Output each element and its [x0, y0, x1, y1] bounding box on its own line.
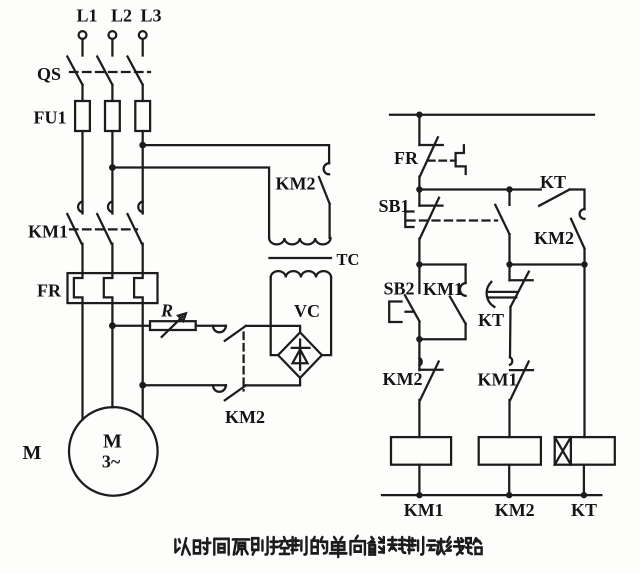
svg-text:M: M — [23, 442, 42, 464]
wire — [508, 234, 510, 264]
contact KM1 interlock blade — [510, 362, 528, 400]
contactor KM1 pole 2 fixed contact — [108, 202, 112, 213]
wire — [418, 265, 420, 294]
wire — [418, 177, 420, 190]
wire — [509, 307, 512, 357]
svg-text:KM2: KM2 — [495, 500, 535, 520]
resistor R arrow — [162, 313, 186, 337]
wire — [81, 85, 83, 101]
svg-text:KM1: KM1 — [478, 370, 518, 390]
node F selfhold — [416, 336, 422, 342]
overload FR heater pole 3 — [134, 273, 143, 303]
switch QS linkage — [70, 71, 150, 73]
transformer TC secondary winding — [271, 271, 331, 277]
wire — [508, 265, 510, 281]
svg-text:KM2: KM2 — [276, 174, 316, 194]
svg-text:FR: FR — [37, 281, 62, 301]
wire — [142, 131, 144, 214]
contactor KM1 linkage — [70, 228, 137, 230]
svg-text:SB1: SB1 — [378, 196, 409, 216]
contactor KM1 pole 1 blade — [67, 214, 81, 244]
wire — [196, 325, 226, 327]
coil KM2 — [479, 437, 541, 465]
svg-text:FU1: FU1 — [34, 108, 67, 128]
SB1 linkage — [408, 219, 498, 221]
switch QS pole 3 blade — [128, 57, 143, 85]
contact KT make blade — [539, 190, 569, 206]
contact KM2 braking lower blade — [225, 385, 246, 400]
wire — [111, 39, 113, 56]
node on L2 to TC — [109, 164, 116, 171]
svg-text:KM1: KM1 — [423, 279, 463, 299]
node KT coil — [581, 492, 587, 498]
node D — [506, 261, 512, 267]
wire — [510, 263, 585, 265]
wire — [81, 244, 83, 274]
overload FR flag — [456, 145, 466, 174]
wire — [418, 400, 420, 437]
switch QS pole 2 blade — [97, 57, 112, 85]
transformer TC core — [270, 257, 332, 259]
node A — [416, 186, 422, 192]
contactor KM1 pole 3 fixed contact — [138, 202, 142, 213]
switch QS pole 1 blade — [67, 57, 82, 85]
coil KM1 — [391, 437, 451, 465]
resistor R — [150, 321, 196, 330]
svg-text:FR: FR — [394, 148, 419, 168]
overload FR heater pole 2 — [104, 273, 113, 303]
wire — [143, 145, 329, 163]
wire L2 lead — [111, 303, 113, 407]
wire L1 lead — [81, 303, 83, 419]
wire — [112, 325, 150, 327]
wire — [271, 278, 278, 356]
wire — [508, 465, 510, 495]
svg-text:KT: KT — [571, 500, 597, 520]
contact FR tick — [419, 144, 442, 146]
svg-text:R: R — [160, 301, 173, 321]
node E — [581, 261, 587, 267]
control top rail — [390, 114, 594, 116]
contact KM2 top fixed — [324, 163, 330, 174]
svg-text:L2: L2 — [111, 6, 132, 26]
svg-text:L1: L1 — [76, 6, 97, 26]
wire — [143, 384, 226, 386]
fuse FU1 pole 3 — [135, 101, 150, 131]
contact KM1 interlock fixed — [510, 357, 512, 365]
fuse FU1 pole 1 — [75, 101, 90, 131]
svg-text:3~: 3~ — [102, 452, 121, 472]
contactor KM1 pole 2 blade — [97, 214, 111, 244]
node KM1 coil — [416, 492, 422, 498]
wire — [464, 265, 466, 284]
rectifier VC bridge — [278, 332, 322, 378]
wire — [583, 265, 585, 438]
wire — [142, 85, 144, 101]
rectifier VC diode — [292, 340, 310, 370]
contact KM2 top blade — [319, 177, 330, 204]
svg-text:KM1: KM1 — [28, 222, 68, 242]
node KM2 coil — [506, 492, 512, 498]
wire — [81, 131, 83, 214]
contact KM1 selfhold fixed — [460, 283, 466, 296]
contact KT delay blade — [511, 272, 529, 307]
contact FR blade — [420, 137, 438, 176]
svg-text:KM1: KM1 — [404, 500, 444, 520]
wire — [246, 378, 300, 386]
motor M circle — [69, 407, 158, 496]
terminal L2 — [109, 31, 117, 39]
node on L2 braking upper — [109, 322, 116, 329]
button SB2 blade — [405, 295, 420, 321]
contact KT delay tick — [510, 279, 533, 281]
button SB1 make blade — [495, 205, 509, 234]
contact KM2 braking upper blade — [225, 326, 246, 341]
contact KM2 interlock tick — [419, 369, 442, 371]
contact KM1 interlock tick — [510, 369, 533, 371]
wire — [508, 190, 510, 205]
terminal L1 — [79, 31, 87, 39]
svg-text:KM2: KM2 — [383, 369, 423, 389]
button SB1 tick — [419, 204, 442, 206]
FR linkage — [428, 159, 456, 161]
wire — [583, 249, 585, 265]
wire — [510, 188, 541, 190]
wire — [142, 244, 144, 274]
svg-text:KT: KT — [540, 172, 566, 192]
caption text — [175, 538, 189, 554]
wire — [419, 263, 465, 265]
contact KM2 NC blade — [571, 219, 585, 249]
contact KM2 NC fixed — [580, 209, 585, 219]
wire — [328, 204, 330, 238]
contact KM1 selfhold blade — [450, 297, 466, 324]
coil KT with delay box — [555, 437, 615, 465]
contactor KM1 pole 1 fixed contact — [78, 202, 82, 213]
node on L3 braking lower — [139, 382, 146, 389]
wire — [246, 326, 300, 333]
svg-text:QS: QS — [37, 64, 61, 84]
transformer TC primary winding — [269, 238, 330, 244]
node C — [416, 261, 422, 267]
svg-text:TC: TC — [337, 250, 360, 269]
overload FR heater pole 1 — [74, 273, 83, 303]
wire — [111, 244, 113, 274]
wire — [419, 324, 465, 339]
overload relay FR box — [68, 273, 158, 303]
contact KM2 interlock blade — [420, 362, 439, 400]
wire — [508, 400, 510, 437]
control bottom rail — [382, 494, 601, 496]
wire — [111, 131, 113, 214]
contactor KM1 pole 3 blade — [128, 214, 142, 244]
node top rail — [416, 112, 422, 118]
wire — [142, 39, 144, 56]
svg-text:L3: L3 — [140, 6, 161, 26]
svg-text:KM2: KM2 — [225, 407, 265, 427]
wire — [418, 465, 420, 495]
wire — [418, 322, 420, 371]
svg-text:VC: VC — [294, 301, 320, 321]
contact KM2 braking upper fixed — [213, 326, 226, 332]
contact KM2 braking lower fixed — [213, 385, 226, 391]
button SB1 actuator — [405, 212, 413, 228]
terminal L3 — [139, 31, 147, 39]
wire — [418, 115, 420, 145]
wire — [111, 85, 113, 101]
wire — [583, 465, 585, 495]
svg-text:KM2: KM2 — [534, 228, 574, 248]
node B — [506, 186, 512, 192]
svg-text:M: M — [103, 431, 122, 453]
button SB2 actuator — [389, 302, 413, 323]
contact KM2 braking linkage — [242, 333, 244, 391]
wire — [112, 168, 269, 239]
svg-text:KT: KT — [478, 310, 504, 330]
fuse FU1 pole 2 — [105, 101, 120, 131]
wire — [419, 188, 509, 190]
wire — [322, 278, 331, 356]
wire L3 lead — [142, 303, 144, 418]
contact KM2 interlock fixed — [419, 358, 421, 366]
wire — [81, 39, 83, 56]
node on L3 to braking KM2 — [139, 142, 146, 149]
button SB1 blade — [420, 198, 439, 239]
wire — [418, 190, 420, 206]
wire — [418, 239, 420, 265]
svg-text:SB2: SB2 — [383, 279, 414, 299]
contact KT delay symbol — [487, 282, 517, 307]
wire — [570, 190, 585, 210]
